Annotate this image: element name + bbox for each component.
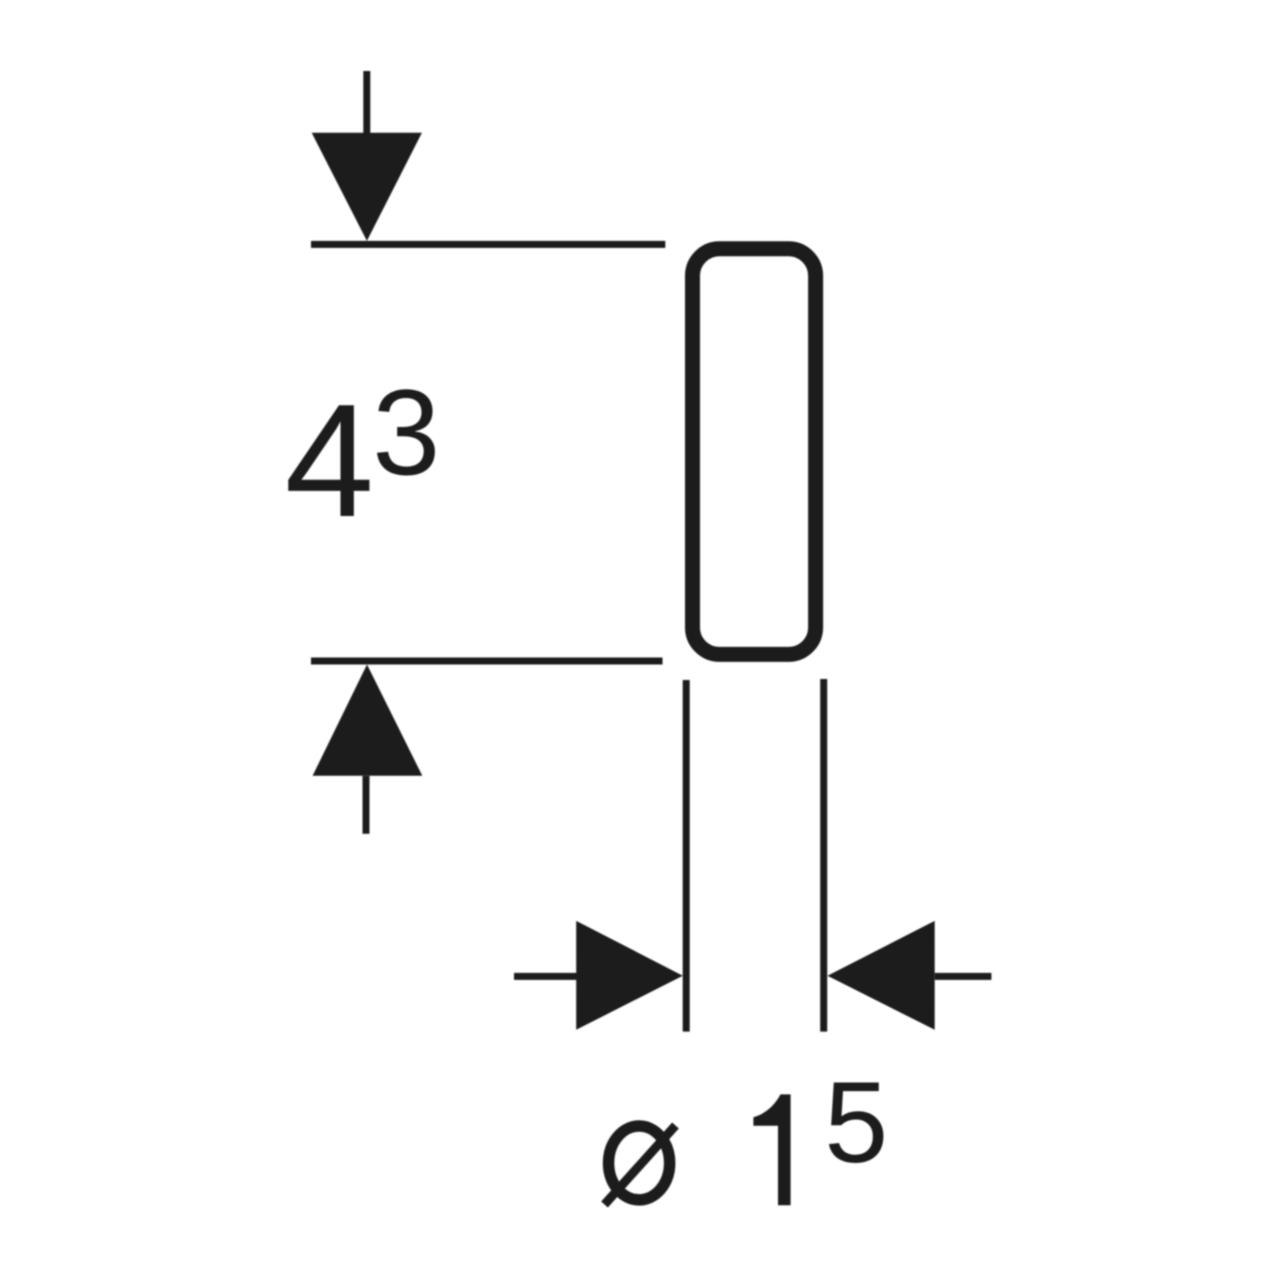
- diameter symbol (drawn: ellipse ring + slash): [605, 1126, 676, 1205]
- top dimension arrow head (pointing down): [312, 133, 422, 241]
- svg-text:4: 4: [285, 371, 375, 551]
- part outline: rounded pill (gasket cross-section): [693, 249, 816, 655]
- dimension label 1 (diameter 15, drawn polygon): [753, 1094, 790, 1205]
- left horizontal arrow stem: [514, 973, 577, 980]
- left horizontal arrow head (pointing right): [576, 921, 683, 1030]
- right extension line: [820, 679, 827, 1032]
- svg-text:3: 3: [372, 364, 440, 500]
- top dimension arrow stem: [363, 71, 370, 134]
- right horizontal arrow stem: [935, 973, 992, 980]
- bottom dimension arrow head (pointing up): [313, 665, 423, 776]
- left extension line: [683, 680, 690, 1032]
- bottom dimension line: [311, 658, 663, 665]
- svg-text:5: 5: [824, 1059, 888, 1187]
- bottom dimension arrow stem: [363, 776, 370, 834]
- top dimension line: [311, 241, 665, 248]
- right horizontal arrow head (pointing left): [828, 921, 935, 1030]
